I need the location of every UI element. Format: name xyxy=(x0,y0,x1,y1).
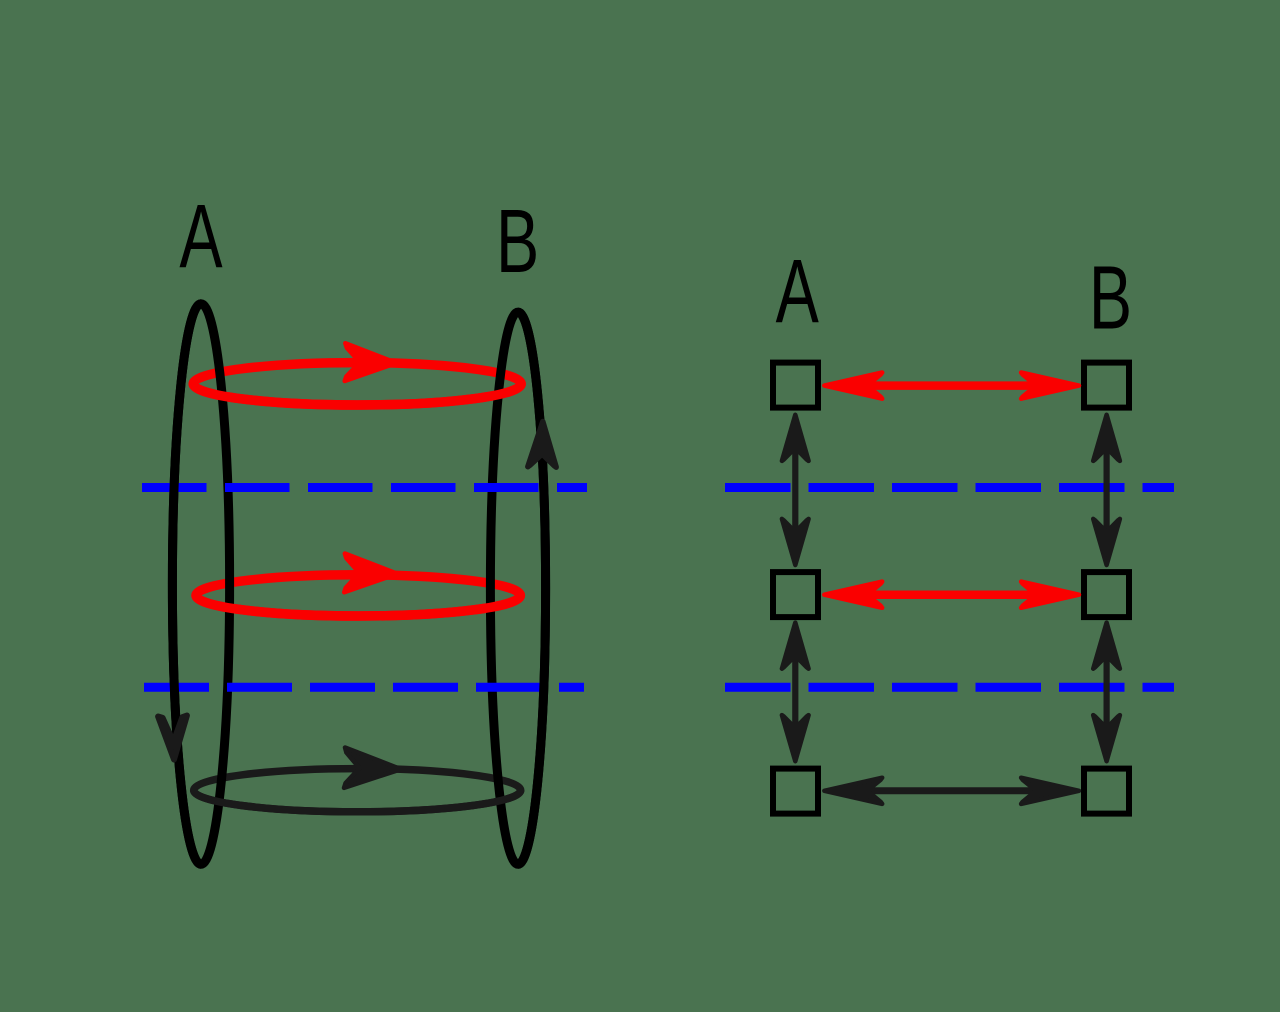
red double arrow row 2 shaft xyxy=(864,590,1039,599)
red double arrow row 1 shaft xyxy=(864,381,1039,390)
vertical double arrow A upper shaft xyxy=(792,440,798,540)
vertical double arrow B lower shaft xyxy=(1103,650,1109,735)
blue dashed line left 2 xyxy=(144,683,584,692)
vertical double arrow A lower shaft xyxy=(792,650,798,735)
black double arrow row 3 left head xyxy=(824,778,882,804)
red double arrow row 2 right head xyxy=(1021,582,1079,608)
red circle 2 bottom arc (in front of loops) xyxy=(196,595,520,616)
svg-text:A: A xyxy=(776,241,820,342)
loop A left-half overdraw (arrow shaft over dashes) xyxy=(172,304,201,865)
loop B right-half overdraw (arrow shaft over dashes) xyxy=(518,312,546,864)
vertical double arrow A upper up head xyxy=(782,415,809,461)
black down arrowhead on loop A left xyxy=(158,716,187,760)
black bottom circle bottom arc (in front of loops) xyxy=(194,790,521,812)
red arrowhead on circle 2 xyxy=(344,554,397,593)
loop B (right vertical ellipse) xyxy=(490,312,545,864)
vertical double arrow B upper down head xyxy=(1093,519,1120,565)
blue dashed line right 1 xyxy=(725,483,1174,492)
black up arrowhead on loop B right xyxy=(528,422,556,468)
vertical double arrow B lower up head xyxy=(1093,623,1120,669)
square A1 xyxy=(773,363,818,408)
square A2 xyxy=(773,572,818,617)
red double arrow row 2 left head xyxy=(824,582,882,608)
svg-text:B: B xyxy=(496,191,539,292)
black double arrow row 3 right head xyxy=(1021,778,1079,804)
red double arrow row 1 left head xyxy=(824,373,882,399)
red circle 1 bottom arc (in front of loops) xyxy=(193,384,521,405)
blue dashed line left 1 xyxy=(142,483,587,492)
black double arrow row 3 shaft xyxy=(864,787,1039,794)
black bottom circle (behind loops) xyxy=(194,769,521,812)
red double arrow row 1 right head xyxy=(1021,373,1079,399)
square B3 xyxy=(1084,769,1129,814)
vertical double arrow A upper down head xyxy=(782,519,809,565)
square A3 xyxy=(773,769,818,814)
red arrowhead on circle 1 xyxy=(345,343,397,381)
square B1 xyxy=(1084,363,1129,408)
red circle 1 (behind loops) xyxy=(193,363,521,405)
vertical double arrow A lower up head xyxy=(782,623,809,669)
svg-text:A: A xyxy=(179,186,223,287)
vertical double arrow B lower down head xyxy=(1093,715,1120,761)
svg-text:B: B xyxy=(1089,247,1132,348)
black arrowhead on bottom circle xyxy=(344,748,401,788)
loop A (left vertical ellipse) xyxy=(172,304,229,865)
vertical double arrow A lower down head xyxy=(782,715,809,761)
red circle 2 (behind loops) xyxy=(196,575,520,616)
vertical double arrow B upper up head xyxy=(1093,415,1120,461)
square B2 xyxy=(1084,572,1129,617)
vertical double arrow B upper shaft xyxy=(1103,440,1109,540)
blue dashed line right 2 xyxy=(725,683,1174,692)
